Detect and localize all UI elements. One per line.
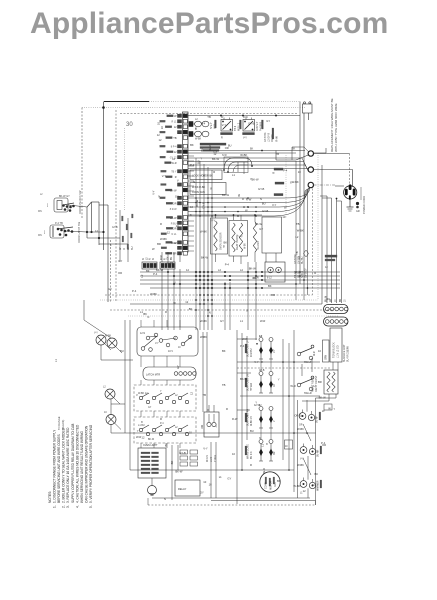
svg-text:10: 10	[232, 452, 235, 456]
svg-text:3.: 3.	[66, 505, 70, 508]
svg-text:N: N	[143, 258, 145, 260]
svg-text:Y: Y	[139, 456, 143, 458]
svg-text:L1: L1	[219, 475, 222, 479]
svg-text:GY: GY	[176, 365, 180, 369]
svg-text:W-R: W-R	[242, 337, 247, 341]
wire h202	[92, 201, 100, 203]
resistor R5 surface block	[324, 370, 338, 394]
element E4 warming	[245, 438, 276, 461]
svg-text:L1: L1	[259, 334, 262, 338]
svg-text:10: 10	[189, 431, 192, 435]
svg-text:L2: L2	[295, 235, 298, 239]
svg-text:10: 10	[335, 299, 337, 302]
element E6 surface RR	[300, 444, 322, 461]
svg-text:W-BK: W-BK	[297, 427, 304, 431]
svg-text:GY: GY	[298, 413, 302, 417]
svg-text:P-4: P-4	[190, 163, 195, 167]
diamond marker	[304, 250, 309, 257]
svg-text:W-BK: W-BK	[200, 335, 207, 339]
svg-text:R: R	[207, 409, 209, 412]
svg-text:10: 10	[157, 122, 161, 125]
svg-text:P-4 TB: P-4 TB	[55, 222, 63, 225]
svg-text:GY-B: GY-B	[262, 209, 269, 213]
wire frame v304 extend	[303, 288, 305, 300]
svg-text:R: R	[160, 222, 162, 226]
wire bm h362	[237, 361, 320, 363]
wire bl slant	[84, 320, 111, 338]
svg-text:V-Y: V-Y	[211, 218, 216, 222]
wire bl v125	[124, 320, 126, 433]
svg-text:W-BK: W-BK	[297, 229, 304, 233]
svg-text:R-W: R-W	[232, 417, 238, 421]
svg-text:TB: TB	[224, 245, 226, 248]
element E1 surface LF dual	[245, 336, 276, 359]
connector CN1 plug row	[324, 295, 349, 313]
wire bm v294	[293, 330, 295, 492]
label box B	[190, 183, 226, 195]
svg-text:CAN CAUSE IMPROPER AND UNSAFE: CAN CAUSE IMPROPER AND UNSAFE OPERATION	[84, 425, 88, 503]
wire bl v130	[129, 320, 131, 470]
svg-text:R: R	[160, 417, 162, 421]
connector P3 block	[160, 255, 175, 269]
svg-text:W-BK: W-BK	[293, 484, 300, 488]
wire bm h368	[237, 367, 330, 369]
wire left vertical dashed x116	[115, 110, 117, 302]
junction harness	[336, 198, 338, 200]
wire console top edge solid	[104, 101, 149, 103]
wire h232	[87, 231, 104, 233]
svg-text:L1: L1	[232, 173, 235, 177]
svg-text:12: 12	[174, 151, 177, 154]
plug P1 power cord	[344, 184, 357, 211]
svg-text:L1 BU: L1 BU	[138, 424, 145, 427]
svg-text:TB W-R: TB W-R	[251, 383, 253, 391]
svg-text:OVEN LIGHT: OVEN LIGHT	[143, 444, 158, 447]
svg-text:P-4: P-4	[225, 263, 230, 267]
svg-text:BK: BK	[190, 143, 194, 147]
svg-text:GY: GY	[214, 150, 218, 154]
svg-text:V-Y: V-Y	[274, 349, 276, 353]
wire bm h470	[130, 469, 294, 471]
svg-text:TO RANGE: TO RANGE	[57, 416, 61, 430]
wire S2 out	[64, 231, 87, 232]
relay K3 DPDT	[221, 116, 233, 140]
notes block	[48, 424, 93, 503]
svg-text:W-R: W-R	[262, 468, 266, 473]
svg-text:BU: BU	[262, 202, 266, 206]
svg-text:5.: 5.	[89, 505, 93, 508]
wire v99	[98, 202, 100, 245]
svg-text:V-Y: V-Y	[272, 203, 277, 207]
svg-text:N: N	[174, 280, 176, 284]
wire frame v322	[321, 165, 323, 304]
svg-text:BK: BK	[250, 148, 254, 151]
svg-text:V-Y: V-Y	[151, 190, 155, 195]
motor M2 door lock	[204, 412, 219, 437]
svg-text:BK-W: BK-W	[249, 267, 256, 271]
junction res top	[215, 214, 217, 216]
svg-text:GY-B: GY-B	[248, 122, 255, 126]
svg-text:W: W	[322, 409, 325, 413]
svg-text:P-4: P-4	[283, 169, 288, 173]
wire fan bundle to terminal N	[188, 158, 309, 172]
svg-text:GRN: GRN	[326, 355, 328, 360]
svg-text:10: 10	[285, 446, 288, 448]
svg-text:WARM ZONE: WARM ZONE	[247, 444, 250, 459]
svg-text:N: N	[164, 497, 166, 501]
svg-text:GY: GY	[266, 119, 270, 123]
wire harness drop d	[341, 201, 343, 303]
wire res bottoms	[215, 254, 217, 262]
svg-text:L1: L1	[54, 359, 58, 362]
svg-text:L2: L2	[195, 118, 198, 121]
svg-text:10: 10	[318, 349, 321, 353]
svg-text:V-Y: V-Y	[203, 447, 208, 451]
svg-text:OR: OR	[225, 146, 229, 150]
relay contacts K1 K2 oval chain	[189, 118, 209, 141]
svg-text:12: 12	[185, 300, 188, 304]
wire frame v300	[299, 113, 301, 284]
svg-text:BK: BK	[143, 312, 147, 316]
svg-text:Y: Y	[255, 400, 257, 404]
svg-text:12: 12	[325, 266, 328, 269]
svg-text:[: [	[47, 203, 48, 207]
svg-text:W: W	[174, 115, 177, 118]
wire rb v211	[210, 442, 212, 498]
wire cabinet left dashed	[81, 108, 83, 219]
resistor R1 oven sensor	[211, 218, 228, 254]
svg-text:R: R	[271, 172, 275, 174]
svg-text:V-Y: V-Y	[118, 259, 123, 263]
svg-text:10: 10	[190, 205, 193, 209]
svg-text:BK-W: BK-W	[175, 470, 182, 474]
svg-text:R: R	[242, 197, 244, 201]
svg-text:Y: Y	[334, 408, 336, 411]
svg-text:W: W	[119, 247, 122, 250]
svg-text:GY: GY	[227, 477, 231, 481]
svg-text:TB: TB	[207, 115, 211, 119]
svg-text:W: W	[173, 301, 176, 305]
switch SW1 infinite LF	[297, 345, 316, 364]
svg-text:R: R	[195, 128, 197, 131]
svg-text:BK: BK	[224, 240, 228, 244]
svg-text:R-W: R-W	[275, 136, 279, 142]
relay K7 box	[265, 262, 285, 282]
wire rb h500	[211, 500, 316, 502]
resistor R2 meat probe	[229, 221, 248, 257]
wire bus x225	[224, 282, 226, 330]
svg-text:V-Y: V-Y	[155, 343, 159, 345]
wire element links	[260, 359, 262, 372]
wire N to plug	[314, 169, 353, 171]
svg-text:N: N	[260, 197, 262, 201]
svg-text:W-BK: W-BK	[200, 319, 207, 323]
svg-text:BU: BU	[326, 297, 330, 301]
wire v296 drop	[295, 161, 297, 300]
element E7 warmer	[300, 478, 322, 495]
wire K10 drop a	[303, 113, 305, 150]
svg-text:[: [	[44, 230, 45, 234]
svg-text:TB: TB	[203, 393, 207, 397]
svg-text:4. CAUTION: ALL WIRES NO.GB 10: 4. CAUTION: ALL WIRES NO.GB 10 DISCONNEC…	[75, 424, 79, 503]
svg-text:10: 10	[104, 411, 107, 414]
svg-text:V: V	[274, 420, 276, 422]
svg-text:8: 8	[266, 442, 268, 446]
wire console right corner drop	[299, 102, 301, 114]
svg-text:10: 10	[172, 157, 175, 161]
svg-text:TB: TB	[173, 137, 177, 140]
svg-text:BU P-4: BU P-4	[251, 451, 253, 459]
svg-text:WITH 105C TYPE AWM 600V WIRE: WITH 105C TYPE AWM 600V WIRE	[334, 103, 338, 152]
svg-text:TB Y: TB Y	[171, 171, 177, 174]
svg-text:N: N	[193, 180, 195, 184]
svg-text:R: R	[213, 170, 215, 174]
junction left feed	[102, 106, 105, 109]
label bars sensor col	[122, 216, 124, 221]
svg-text:SU-RR 2350W: SU-RR 2350W	[347, 345, 350, 362]
svg-text:SU-RF: SU-RF	[317, 415, 319, 423]
svg-text:12: 12	[297, 256, 301, 259]
svg-text:R: R	[123, 248, 126, 250]
svg-text:L1: L1	[240, 319, 243, 323]
wire sw drops	[301, 364, 303, 376]
svg-text:W: W	[284, 205, 287, 209]
svg-text:P-4: P-4	[240, 344, 245, 348]
svg-text:10: 10	[282, 215, 285, 219]
svg-text:4.: 4.	[75, 505, 79, 508]
svg-text:DOOR LATCH SW: DOOR LATCH SW	[78, 221, 81, 243]
svg-text:W: W	[203, 174, 206, 178]
svg-text:TB: TB	[296, 222, 300, 226]
lamp DS3	[103, 386, 120, 405]
splice box right	[285, 440, 293, 449]
lamp DS5 oven light block	[138, 444, 166, 496]
svg-text:BU BU: BU BU	[301, 256, 304, 264]
svg-text:SW-LR: SW-LR	[304, 392, 312, 395]
svg-text:HI-LIMIT: HI-LIMIT	[257, 240, 260, 250]
svg-text:DOOR UNLOCK SW: DOOR UNLOCK SW	[79, 190, 82, 214]
svg-text:W-BK 12: W-BK 12	[138, 392, 148, 395]
svg-text:BK-W: BK-W	[222, 193, 229, 197]
svg-text:R-W: R-W	[246, 198, 252, 202]
svg-text:(BLACK): (BLACK)	[61, 420, 65, 430]
svg-text:BK-W: BK-W	[156, 268, 163, 272]
wire S1 out	[68, 205, 87, 207]
junction m2	[90, 231, 92, 233]
svg-text:SUPPLY COPPER FLUTED RELAY DIA: SUPPLY COPPER FLUTED RELAY DIAGRAM TO CA…	[71, 424, 75, 503]
svg-text:BEFORE SERVICING UNIT AND WIRE: BEFORE SERVICING UNIT AND WIRE CODES	[57, 434, 61, 503]
svg-text:N W: N W	[222, 154, 227, 157]
wire left feed vertical	[103, 102, 105, 251]
svg-text:W-R: W-R	[260, 319, 265, 323]
svg-text:BK: BK	[292, 148, 296, 151]
svg-text:W-R V: W-R V	[206, 455, 209, 462]
wire bm v242	[241, 333, 243, 470]
svg-text:3. REPLACE ONLY 16 GA 14GA WIR: 3. REPLACE ONLY 16 GA 14GA WIRE 105C RAT…	[66, 427, 70, 503]
wire harness drop c	[336, 199, 338, 304]
latch switch assembly A1	[137, 327, 198, 356]
svg-text:BK-W: BK-W	[148, 439, 155, 441]
svg-text:10: 10	[298, 170, 301, 174]
terminal TB L2	[308, 182, 313, 187]
wire bus x256	[255, 262, 257, 340]
svg-text:10: 10	[160, 126, 164, 129]
svg-text:12: 12	[95, 229, 98, 233]
wire rf drops	[306, 400, 308, 412]
svg-text:W-BK: W-BK	[200, 230, 207, 234]
svg-text:BR: BR	[157, 242, 161, 246]
element E5 surface RF	[299, 410, 321, 427]
junction term col	[295, 271, 297, 273]
wire strip stubs	[188, 156, 194, 251]
svg-text:P-4: P-4	[321, 441, 326, 445]
relay K5 DPDT	[243, 116, 255, 140]
svg-text:L2: L2	[240, 268, 243, 272]
wire h244	[99, 243, 128, 245]
wire bm v283	[282, 339, 284, 460]
terminal block TB2	[323, 340, 330, 362]
wire color code labels	[95, 157, 326, 467]
svg-text:L2: L2	[218, 268, 221, 272]
svg-text:10 V: 10 V	[168, 350, 173, 353]
wire rb v216	[215, 442, 217, 498]
svg-text:R: R	[314, 271, 316, 275]
svg-text:Y W-R: Y W-R	[214, 455, 217, 462]
svg-text:2.: 2.	[62, 505, 66, 508]
svg-text:BK: BK	[146, 269, 150, 273]
svg-text:R: R	[165, 310, 167, 314]
svg-text:OR: OR	[173, 203, 177, 206]
svg-text:8 P-4: 8 P-4	[171, 146, 177, 149]
terminal TB L1	[308, 151, 313, 156]
svg-text:MOTOR: MOTOR	[270, 481, 273, 490]
label wbk streaks	[274, 168, 283, 170]
svg-text:W-R: W-R	[290, 384, 295, 388]
svg-text:L2: L2	[175, 395, 178, 397]
wire v128	[127, 218, 129, 262]
splice box SP1	[324, 404, 332, 410]
svg-text:BK-W: BK-W	[212, 157, 219, 161]
svg-text:NOTES:: NOTES:	[48, 491, 52, 503]
wire slant link 2	[303, 458, 311, 475]
sensor receptacle box	[262, 217, 282, 253]
svg-text:BK: BK	[189, 307, 193, 311]
svg-text:R: R	[221, 137, 223, 140]
wire bm h396	[240, 395, 320, 397]
label streak row	[200, 143, 226, 145]
svg-text:R: R	[164, 258, 166, 260]
svg-text:LATCH MTR: LATCH MTR	[146, 374, 160, 377]
svg-text:MN: MN	[38, 234, 42, 237]
svg-text:BU: BU	[197, 160, 201, 164]
svg-text:30: 30	[126, 122, 133, 128]
svg-text:RELAY: RELAY	[178, 487, 187, 491]
motor M1 convection fan	[260, 472, 280, 492]
svg-text:W-BK: W-BK	[167, 261, 174, 265]
svg-text:8 R-W: 8 R-W	[170, 208, 178, 211]
svg-text:BU: BU	[250, 429, 254, 433]
svg-text:L2: L2	[40, 194, 43, 196]
svg-text:W-R: W-R	[208, 145, 212, 150]
svg-text:BK-W: BK-W	[319, 395, 326, 399]
svg-text:BU: BU	[120, 349, 124, 353]
bottom dashed corner	[315, 501, 317, 506]
svg-text:L2: L2	[175, 427, 178, 429]
wire rb h498	[152, 497, 310, 499]
wire console top bus	[188, 115, 300, 117]
svg-text:BR: BR	[271, 293, 275, 297]
svg-text:V: V	[177, 178, 179, 182]
switch bank SB2	[134, 417, 196, 443]
svg-text:N: N	[209, 311, 211, 315]
wire frame bottom 295	[105, 294, 313, 296]
wire frame bottom 304	[130, 303, 322, 305]
svg-text:12: 12	[174, 126, 177, 129]
wire v297 right	[297, 400, 299, 498]
svg-text:12: 12	[167, 231, 170, 235]
lamp DS2	[105, 335, 122, 354]
wire dashed drop x110	[110, 240, 112, 302]
svg-text:W: W	[237, 194, 241, 197]
svg-text:W-BK: W-BK	[150, 292, 157, 296]
svg-text:R: R	[250, 463, 252, 467]
wire frame v304b	[303, 150, 305, 288]
svg-text:OR: OR	[274, 451, 276, 455]
svg-text:TB: TB	[222, 383, 226, 387]
svg-text:BK-W GY: BK-W GY	[59, 195, 70, 198]
switch SW2 infinite LR	[297, 376, 316, 395]
wire corner 91	[87, 202, 92, 207]
wire frame v318	[317, 153, 319, 300]
connector P1 pin leads and labels	[160, 114, 182, 256]
svg-text:OR: OR	[294, 414, 298, 418]
wire L2 to plug line	[314, 184, 336, 186]
bottom dashed border	[148, 504, 316, 506]
svg-text:W: W	[221, 116, 224, 119]
wire h238	[87, 237, 120, 239]
wire L1 right	[314, 152, 327, 154]
svg-text:OR: OR	[118, 271, 122, 275]
svg-text:W-BK: W-BK	[292, 180, 299, 184]
svg-text:OVEN SENSOR: OVEN SENSOR	[220, 232, 223, 250]
wire harness drop a	[326, 196, 328, 303]
wire frame bottom 310	[110, 309, 334, 311]
svg-text:V-Y: V-Y	[222, 123, 227, 127]
connector P1 board edge strip	[183, 112, 189, 255]
svg-text:BK-W: BK-W	[195, 199, 199, 206]
svg-text:V-Y: V-Y	[94, 332, 98, 335]
switch S2 door latch	[44, 221, 81, 243]
wire bm h410	[237, 409, 250, 411]
svg-text:V: V	[136, 393, 138, 397]
bottom dashed corner l	[147, 498, 149, 505]
svg-text:W-R: W-R	[171, 241, 176, 245]
svg-text:L2: L2	[103, 386, 106, 389]
element E2 surface LR dual	[245, 370, 276, 393]
svg-text:GY-B GY: GY-B GY	[305, 268, 308, 278]
svg-text:5. VERIFY PROPER OPERATION AFT: 5. VERIFY PROPER OPERATION AFTER SERVICI…	[89, 424, 93, 503]
svg-text:P-4: P-4	[153, 272, 158, 276]
svg-text:SU-RR: SU-RR	[318, 449, 320, 457]
junction console bus	[220, 115, 222, 117]
wire bl h433	[111, 432, 237, 434]
wire console top edge dotted	[149, 101, 300, 103]
svg-text:Y: Y	[160, 391, 162, 393]
svg-text:12: 12	[157, 133, 160, 137]
resistor R3 coil	[253, 222, 256, 252]
wire res top bus	[188, 214, 262, 216]
wire v3075 drop	[307, 190, 309, 295]
